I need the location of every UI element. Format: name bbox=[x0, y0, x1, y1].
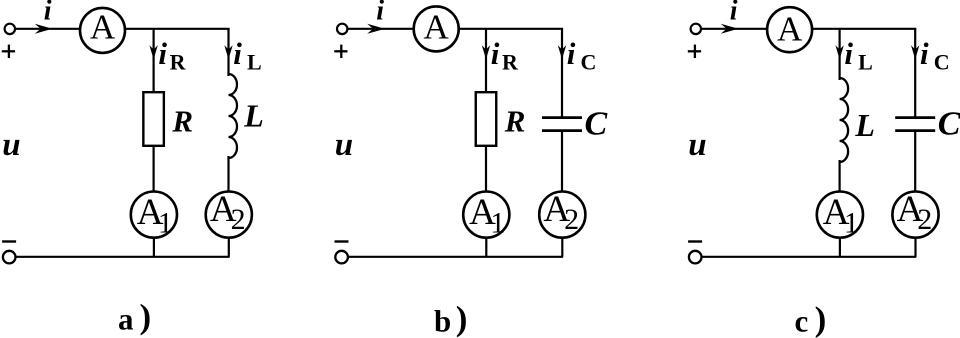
svg-text:R: R bbox=[504, 104, 526, 139]
svg-text:i: i bbox=[844, 36, 853, 71]
svg-text:C: C bbox=[585, 105, 608, 142]
svg-text:i: i bbox=[233, 36, 242, 71]
svg-text:L: L bbox=[243, 97, 264, 133]
svg-text:u: u bbox=[2, 127, 20, 163]
svg-text:1: 1 bbox=[844, 207, 859, 240]
svg-text:): ) bbox=[456, 299, 468, 338]
svg-text:1: 1 bbox=[490, 207, 505, 240]
svg-text:L: L bbox=[854, 107, 875, 143]
svg-text:c: c bbox=[795, 304, 809, 338]
svg-text:): ) bbox=[140, 297, 152, 336]
svg-text:A: A bbox=[777, 10, 803, 49]
svg-text:C: C bbox=[581, 50, 597, 75]
svg-text:b: b bbox=[434, 303, 451, 338]
svg-text:i: i bbox=[730, 0, 738, 26]
svg-text:i: i bbox=[491, 36, 500, 71]
svg-text:R: R bbox=[170, 50, 187, 75]
svg-text:a: a bbox=[118, 301, 134, 336]
svg-text:2: 2 bbox=[564, 203, 579, 236]
svg-text:L: L bbox=[858, 50, 873, 75]
svg-text:2: 2 bbox=[231, 203, 246, 236]
svg-text:i: i bbox=[158, 36, 167, 71]
svg-text:i: i bbox=[376, 0, 384, 26]
svg-text:A: A bbox=[424, 7, 450, 46]
svg-text:2: 2 bbox=[917, 203, 932, 236]
svg-text:i: i bbox=[920, 36, 929, 71]
svg-text:u: u bbox=[335, 127, 353, 163]
svg-text:R: R bbox=[502, 50, 519, 75]
svg-text:L: L bbox=[247, 50, 262, 75]
svg-text:): ) bbox=[815, 299, 827, 338]
svg-text:R: R bbox=[171, 104, 193, 139]
svg-text:i: i bbox=[567, 36, 576, 71]
svg-text:u: u bbox=[688, 127, 706, 163]
svg-text:1: 1 bbox=[158, 207, 173, 240]
svg-text:C: C bbox=[938, 105, 960, 142]
svg-text:C: C bbox=[934, 50, 950, 75]
svg-text:A: A bbox=[90, 7, 116, 46]
svg-text:i: i bbox=[44, 0, 52, 26]
